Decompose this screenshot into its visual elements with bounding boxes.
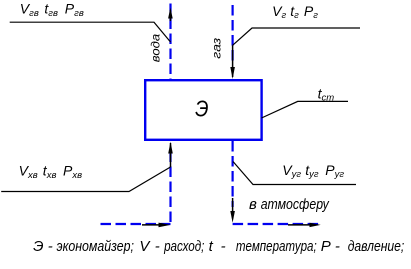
svg-text:tст: tст bbox=[318, 85, 335, 103]
leader line to Vг label bbox=[233, 28, 360, 45]
svg-text:VугtугPуг: VугtугPуг bbox=[282, 162, 344, 180]
arrow: flue gas right to atmosphere bbox=[310, 223, 321, 227]
svg-text:VгtгPг: VгtгPг bbox=[272, 3, 318, 21]
svg-text:Э-экономайзер;V-расход;t-темпе: Э-экономайзер;V-расход;t-температура;Р-д… bbox=[33, 238, 404, 255]
leader line to tст label bbox=[262, 101, 349, 118]
arrow: cold water right at corner bbox=[159, 223, 171, 228]
wire: flue gas outlet dashed (bottom right horizontal to atmosphere) bbox=[233, 223, 319, 225]
svg-text:VхвtхвPхв: VхвtхвPхв bbox=[19, 163, 82, 181]
leader line to Vгв label bbox=[10, 22, 171, 42]
economizer box Э bbox=[145, 80, 261, 140]
arrow: cold water up into box bbox=[168, 142, 173, 154]
wire: hot water outlet dashed (top left vertical) bbox=[169, 4, 171, 80]
wire: cold water inlet dashed (bottom left vertical) bbox=[169, 152, 171, 224]
leader line to Vуг label bbox=[233, 162, 356, 185]
leader line to Vхв label bbox=[1, 167, 170, 192]
svg-text:VгвtгвPгв: VгвtгвPгв bbox=[20, 1, 84, 19]
svg-text:Э: Э bbox=[195, 96, 208, 122]
arrow: gas down into box bbox=[230, 67, 235, 79]
arrow: hot water up bbox=[168, 8, 173, 19]
arrow: flue gas down bbox=[230, 211, 235, 223]
wire: flue gas outlet dashed (bottom right vertical) bbox=[232, 141, 234, 207]
wire: gas inlet dashed (top right vertical) bbox=[232, 5, 234, 62]
svg-text:вода: вода bbox=[148, 34, 162, 63]
svg-text:ватмосферу: ватмосферу bbox=[249, 196, 330, 213]
svg-text:газ: газ bbox=[210, 37, 224, 58]
wire: cold water inlet dashed (bottom horizontal) bbox=[101, 223, 171, 225]
